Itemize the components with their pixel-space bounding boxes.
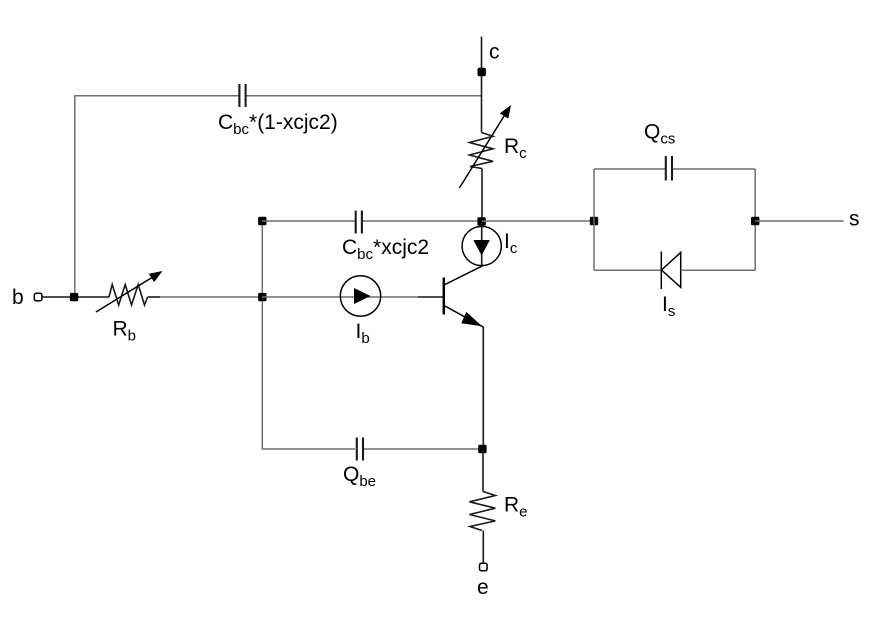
svg-text:Cbc*xcjc2: Cbc*xcjc2 — [342, 236, 429, 263]
capacitor C_bc*xcjc2 — [356, 211, 362, 234]
svg-text:c: c — [489, 41, 500, 64]
wire: b port to node — [43, 296, 72, 298]
transistor Q (NPN) — [444, 266, 484, 327]
node: left rail / base wire — [258, 293, 266, 301]
capacitor Q_be — [357, 438, 363, 461]
diode I_s — [661, 252, 680, 290]
svg-text:b: b — [12, 286, 24, 309]
resistor R_b (variable, horizontal zigzag) — [109, 285, 160, 306]
node: collector / mid rail junction — [477, 217, 485, 225]
arrow of variable resistor R_b — [96, 271, 163, 312]
arrow of variable resistor R_c — [459, 105, 511, 188]
current source I_c (circle with down arrow) — [462, 221, 501, 266]
svg-text:e: e — [477, 576, 489, 599]
wire: substrate block right branch vertical — [754, 169, 756, 271]
wire: substrate block left branch vertical — [593, 169, 595, 271]
resistor R_e (vertical zigzag) — [470, 492, 496, 531]
wire: top rail right segment from capacitor to collector column — [246, 95, 482, 97]
wire: top rail left segment to capacitor C_bc*(1-xcjc2) — [74, 95, 239, 97]
left rail: vertical wire — [261, 221, 263, 449]
wire: mid rail from collector node to substrate block — [482, 220, 594, 222]
wire: bottom rail capacitor to emitter node — [362, 448, 482, 450]
wire: base wire from left rail to transistor base — [262, 296, 418, 298]
node on collector stub — [478, 68, 486, 76]
node: emitter / bottom rail junction — [478, 445, 486, 453]
svg-text:s: s — [849, 208, 860, 231]
wire: emitter column down to bottom rail node — [482, 327, 484, 446]
capacitor C_bc*(1-xcjc2) — [239, 84, 245, 107]
wire: R_c bottom lead down to collector node — [481, 169, 483, 219]
wire: R_b to left rail node — [160, 296, 262, 298]
wire: transistor base pin segment — [418, 296, 444, 298]
node at b junction — [70, 293, 78, 301]
terminal c: stub wire at top — [481, 37, 483, 95]
wire: substrate block bottom left segment to diode — [594, 269, 661, 271]
wire: substrate node to terminal s — [755, 220, 844, 222]
capacitor Q_cs — [666, 156, 672, 181]
wire: node b to resistor R_b — [78, 296, 109, 298]
terminal b: open square port — [34, 293, 42, 301]
wire: emitter node down to resistor R_e — [482, 449, 484, 492]
wire: R_e bottom lead to terminal e — [482, 531, 484, 564]
node: substrate block right — [751, 217, 759, 225]
wire: substrate block bottom right segment — [681, 269, 756, 271]
wire: mid rail capacitor to collector node — [362, 220, 482, 222]
wire: substrate block top right segment — [672, 168, 755, 170]
resistor R_c (variable, vertical zigzag) — [470, 133, 494, 169]
wire: vertical from node b up to top rail — [74, 96, 76, 294]
node: left rail / mid wire — [258, 217, 266, 225]
wire: collector column from top rail to resistor R_c — [481, 95, 483, 133]
wire: substrate block top left segment to capacitor Q_cs — [594, 168, 666, 170]
wire: bottom rail from left rail corner to capacitor Q_be — [262, 447, 355, 450]
wire: mid rail from left node to capacitor C_bc*xcjc2 — [262, 220, 355, 222]
terminal e: open square port — [480, 563, 488, 571]
node: substrate block left — [590, 217, 598, 225]
current source I_b (circle with right arrow) — [340, 276, 380, 316]
